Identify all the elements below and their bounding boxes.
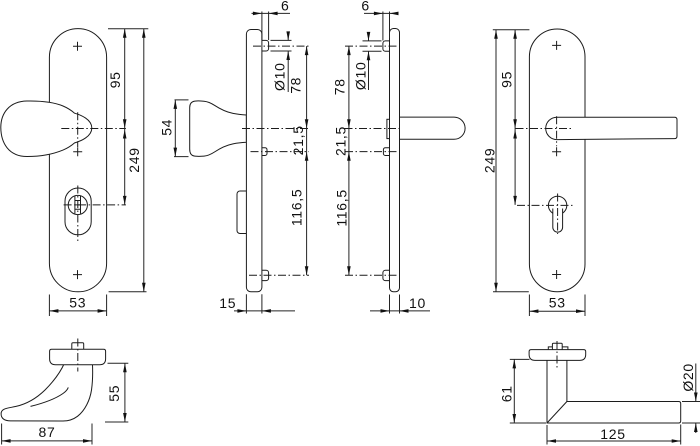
axis middle tab <box>251 151 310 153</box>
top fixing boss side view <box>383 41 392 51</box>
dimension 55 extension lines <box>105 363 128 422</box>
screw mark middle <box>73 147 82 156</box>
keyhole centerline horizontal <box>517 204 573 206</box>
dimension line 6 <box>364 12 398 14</box>
lever rose cap <box>529 350 586 361</box>
svg-text:10: 10 <box>409 295 426 311</box>
dimension line 6 <box>252 12 291 14</box>
dimension line 249 <box>495 30 497 292</box>
svg-text:21,5: 21,5 <box>333 126 349 156</box>
axis bottom screw <box>345 274 397 276</box>
cylinder cover side view <box>237 191 249 234</box>
svg-text:95: 95 <box>107 71 123 88</box>
knob axis centerline horizontal <box>61 128 126 130</box>
dimension 125 extension lines <box>547 425 681 445</box>
svg-text:15: 15 <box>219 295 236 311</box>
top fixing boss side view <box>258 40 269 51</box>
lever spindle steps <box>548 347 568 350</box>
chain dimension line 78 21,5 116,5 <box>306 46 308 275</box>
axis handle <box>345 128 403 130</box>
svg-text:61: 61 <box>499 385 515 402</box>
dimension line 87 <box>2 440 92 442</box>
dimension line 10 <box>370 310 430 312</box>
keyhole centerline vertical <box>557 194 559 235</box>
knob side profile <box>190 101 247 156</box>
svg-text:116,5: 116,5 <box>333 189 349 227</box>
lever neck and grip <box>547 360 681 423</box>
knob axis centerline vertical <box>77 112 79 147</box>
dimension 10 extension lines <box>390 295 400 314</box>
dimension line 54 <box>174 100 176 157</box>
dimension line O10 <box>287 33 289 92</box>
svg-text:249: 249 <box>126 147 142 172</box>
dimension 54 extension lines <box>174 100 189 157</box>
backplate interior front view <box>529 29 585 292</box>
screw mark top <box>73 42 82 51</box>
lever handle front view <box>546 117 677 139</box>
dimension 6 extension lines <box>383 12 390 41</box>
svg-text:6: 6 <box>361 0 370 13</box>
dimension O10 extension lines <box>271 40 292 51</box>
svg-text:Ø10: Ø10 <box>352 62 368 91</box>
spindle centerline <box>556 341 558 370</box>
dimension 61 extension lines <box>510 359 546 423</box>
svg-text:78: 78 <box>288 77 304 94</box>
dimension line 95 with chain to cylinder <box>514 30 516 205</box>
axis bottom screw <box>249 274 309 276</box>
svg-text:53: 53 <box>549 295 566 311</box>
svg-text:55: 55 <box>106 385 122 402</box>
bearing boss at handle <box>387 119 392 138</box>
dimension line 55 <box>124 363 126 422</box>
dimension O10 extension lines <box>363 41 382 51</box>
cylinder centerline horizontal <box>64 204 126 206</box>
handle axis centerline vertical <box>556 116 558 146</box>
backplate exterior side view 15mm <box>246 30 262 292</box>
screw mark bottom <box>552 270 561 279</box>
dimension line 15 <box>234 310 295 312</box>
dimension 15 extension lines <box>246 294 262 313</box>
lever handle side view <box>400 117 466 139</box>
knob body profile <box>1 363 93 421</box>
dimension O20 extension lines <box>682 402 700 424</box>
bottom fixing boss side view <box>383 270 392 280</box>
dimension line 53 <box>529 310 585 312</box>
axis handle <box>242 128 309 130</box>
cylinder profile bar <box>75 196 81 214</box>
dimension 87 extension lines <box>2 424 92 445</box>
svg-text:78: 78 <box>332 78 348 95</box>
cylinder centerline vertical <box>77 186 79 243</box>
knob front view <box>1 101 92 157</box>
svg-text:116,5: 116,5 <box>289 189 305 227</box>
backplate exterior front view <box>49 29 106 292</box>
dimension 53 extension lines <box>49 295 106 317</box>
extension line top <box>493 29 530 31</box>
knob rose cap <box>50 349 106 365</box>
axis top screw <box>253 45 309 47</box>
axis middle tab <box>345 151 397 153</box>
dimension line 61 <box>513 359 515 423</box>
svg-text:6: 6 <box>281 0 290 13</box>
dimension line O10 <box>368 33 370 90</box>
handle axis centerline horizontal <box>516 128 572 130</box>
screw mark middle <box>552 147 561 156</box>
axis top screw <box>345 45 398 47</box>
svg-text:95: 95 <box>499 71 515 88</box>
middle tab side view <box>258 148 267 156</box>
dimension 53 extension lines <box>529 295 585 317</box>
knob grip crease <box>31 387 69 406</box>
svg-text:125: 125 <box>600 426 625 442</box>
extension line bottom <box>493 291 529 293</box>
middle tab side view <box>383 148 392 156</box>
dimension line O20 <box>695 364 697 434</box>
lever spindle <box>552 343 562 350</box>
dimension line 249 <box>143 29 145 292</box>
dimension 6 extension lines <box>262 12 269 41</box>
backplate interior side view 10mm <box>390 29 400 292</box>
screw mark top <box>552 41 561 50</box>
svg-text:87: 87 <box>39 424 56 440</box>
dimension line 53 <box>49 310 106 312</box>
dimension line 125 <box>547 440 681 442</box>
extension line bottom <box>109 291 147 293</box>
svg-text:Ø10: Ø10 <box>272 62 288 91</box>
knob spindle <box>72 343 84 351</box>
screw mark bottom <box>73 270 82 279</box>
svg-text:21,5: 21,5 <box>290 125 306 155</box>
cylinder circle <box>68 195 87 214</box>
cylinder protection oval <box>65 188 91 235</box>
bottom fixing boss side view <box>258 270 269 280</box>
keyhole slot <box>553 209 563 233</box>
dimension line 95 with chain to cylinder <box>124 29 126 205</box>
svg-text:53: 53 <box>69 295 86 311</box>
spindle centerline <box>77 339 79 372</box>
lever elbow miter line <box>547 402 567 424</box>
extension line top <box>108 28 148 30</box>
svg-text:54: 54 <box>159 119 175 136</box>
svg-text:Ø20: Ø20 <box>680 363 696 392</box>
chain dimension line 78 21,5 116,5 <box>348 46 350 275</box>
keyhole circle <box>548 196 566 214</box>
svg-text:249: 249 <box>482 148 498 173</box>
